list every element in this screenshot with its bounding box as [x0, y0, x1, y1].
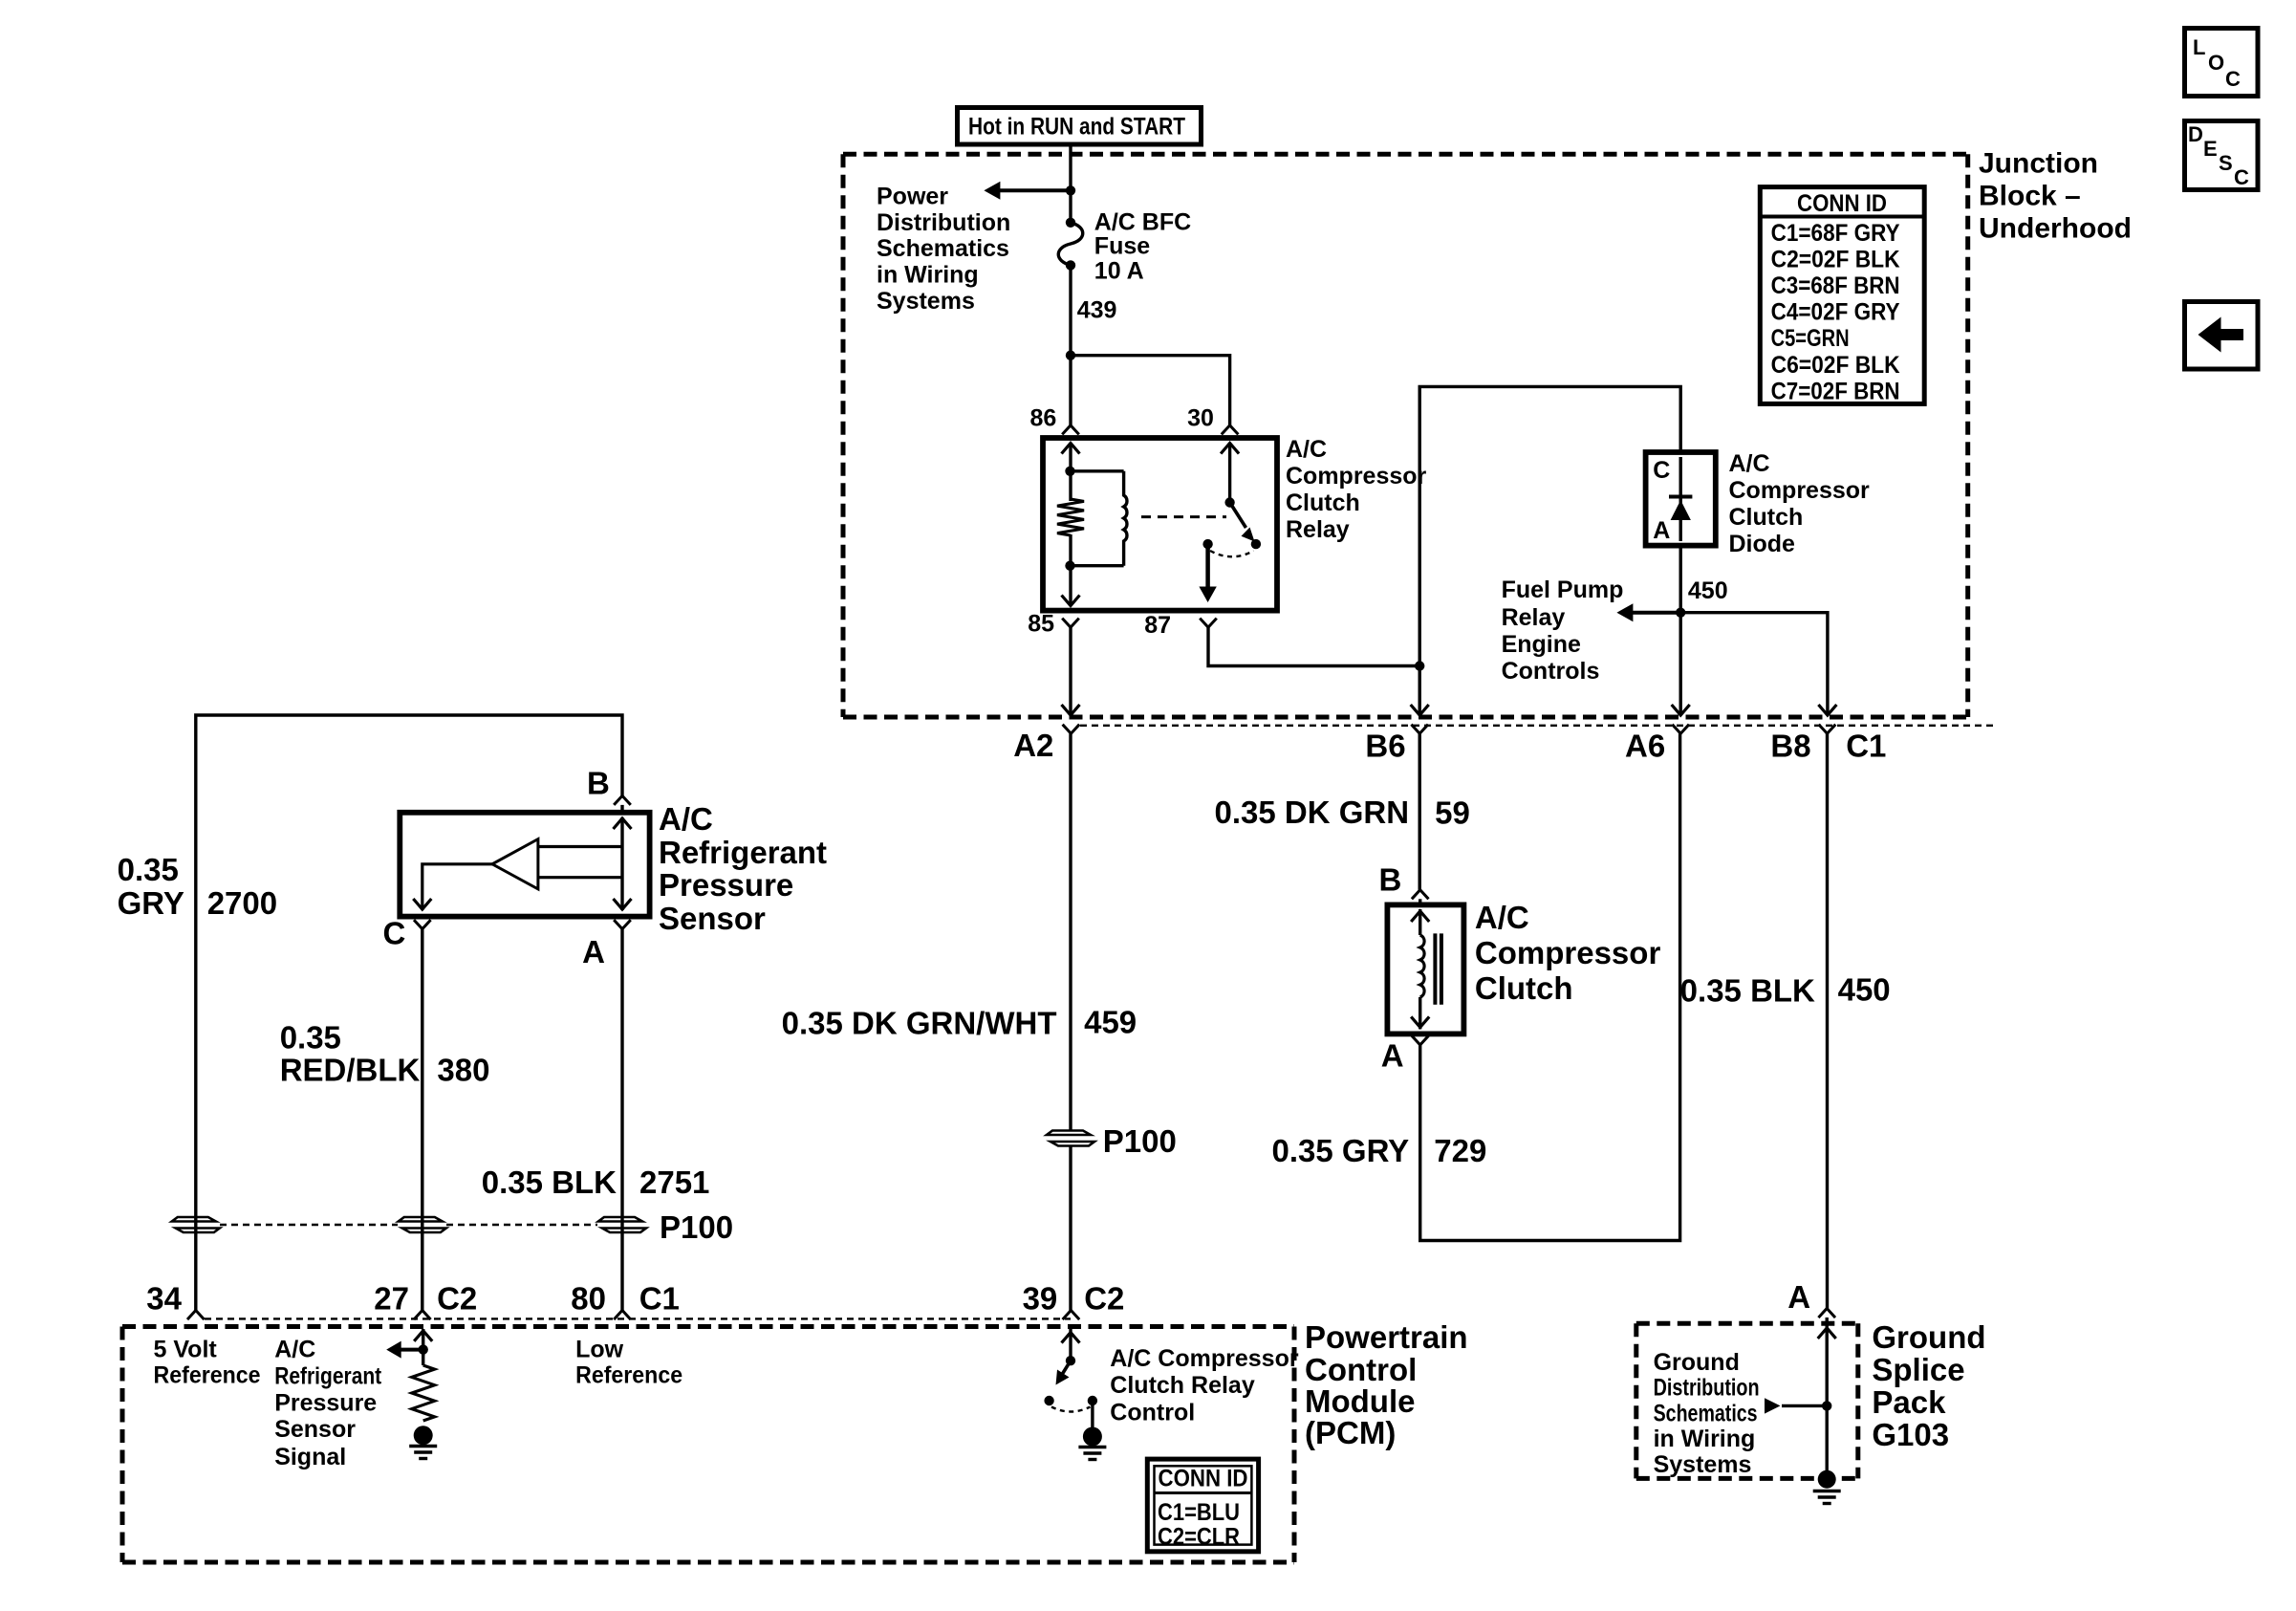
svg-text:Schematics: Schematics — [877, 235, 1009, 262]
wire: branch over to relay pin 30 — [1071, 356, 1230, 425]
svg-text:380: 380 — [437, 1053, 489, 1088]
wire 450: B8 down to G103 — [1826, 733, 1829, 1308]
connector P100 on wire 459 — [1047, 1131, 1091, 1136]
svg-text:30: 30 — [1187, 404, 1214, 431]
svg-text:C: C — [383, 915, 406, 950]
sensor transducer triangle — [492, 839, 538, 889]
PCM pin 39 internal: driver switch — [1062, 1329, 1080, 1361]
label: Fuel Pump Relay Engine Controls — [1502, 577, 1624, 685]
svg-text:Pressure: Pressure — [274, 1389, 377, 1416]
svg-text:B6: B6 — [1365, 729, 1405, 764]
node: junction dot to pin 30 branch — [1066, 351, 1075, 360]
wire: branch to Power Distribution Schematics — [1000, 188, 1071, 192]
svg-text:C7=02F BRN: C7=02F BRN — [1771, 378, 1900, 404]
svg-text:A/C Compressor: A/C Compressor — [1110, 1345, 1299, 1372]
connector P100 on wire 2751 — [598, 1217, 642, 1222]
terminal chevron sensor B — [614, 795, 631, 805]
terminal chevron PCM 27 — [414, 1311, 431, 1320]
svg-text:O: O — [2208, 51, 2224, 75]
svg-text:Junction: Junction — [1979, 148, 2098, 180]
wire 380: sensor C down to PCM pin 27 — [421, 929, 423, 1311]
terminal chevron pin 30 — [1222, 425, 1239, 435]
PCM interface thin dashed line — [205, 1317, 1071, 1319]
svg-text:Reference: Reference — [575, 1361, 682, 1388]
label: Power Distribution Schematics in Wiring Systems — [877, 183, 1010, 315]
wire: branch to ground distribution schematics — [1782, 1404, 1827, 1407]
svg-text:Reference: Reference — [154, 1361, 261, 1388]
svg-text:459: 459 — [1084, 1005, 1137, 1040]
node: blade tip contact dot — [1251, 539, 1261, 549]
PCM dashed box — [122, 1327, 1294, 1563]
svg-text:Compressor: Compressor — [1475, 935, 1661, 970]
diode D1 box: A/C Compressor Clutch Diode — [1646, 452, 1716, 546]
switch travel dashed arc (PCM) — [1051, 1407, 1091, 1412]
svg-text:Compressor: Compressor — [1729, 477, 1871, 504]
svg-text:27: 27 — [374, 1281, 409, 1317]
node: splice dot pin 27 — [419, 1344, 428, 1354]
diode symbol — [1669, 457, 1692, 541]
svg-text:59: 59 — [1435, 795, 1470, 830]
ground splice ball G103 — [1818, 1470, 1836, 1489]
svg-text:Signal: Signal — [274, 1444, 346, 1470]
svg-text:G103: G103 — [1872, 1417, 1949, 1452]
node: Hot in RUN and START box — [958, 108, 1202, 145]
svg-text:Distribution: Distribution — [877, 209, 1010, 236]
svg-text:0.35 DK GRN/WHT: 0.35 DK GRN/WHT — [782, 1006, 1057, 1041]
svg-text:Systems: Systems — [877, 288, 975, 315]
svg-text:P100: P100 — [1103, 1123, 1177, 1159]
label: Ground Distribution Schematics in Wiring Systems — [1654, 1349, 1760, 1478]
node: fuel pump splice dot — [1676, 608, 1685, 618]
svg-text:0.35: 0.35 — [118, 852, 179, 887]
label: 5 Volt Reference — [154, 1337, 261, 1389]
label: 0.35 GRY (left wire) — [118, 852, 184, 921]
terminal chevron B8/C1 — [1819, 725, 1836, 734]
svg-text:L: L — [2193, 35, 2205, 59]
svg-text:439: 439 — [1077, 296, 1117, 323]
svg-text:2700: 2700 — [207, 885, 277, 921]
label: A/C Compressor Clutch Relay Control — [1110, 1345, 1299, 1426]
wire: hot feed from Hot box to fuse — [1069, 144, 1072, 223]
arrow to Fuel Pump Relay Engine Controls (off-page) — [1616, 603, 1633, 621]
svg-text:Relay: Relay — [1502, 604, 1566, 631]
terminal chevron clutch A — [1412, 1035, 1429, 1045]
svg-text:Pressure: Pressure — [659, 867, 793, 903]
svg-text:A: A — [1381, 1038, 1404, 1074]
terminal chevron PCM pin 39 — [1063, 1311, 1080, 1320]
svg-text:Ground: Ground — [1654, 1349, 1740, 1376]
svg-text:729: 729 — [1434, 1133, 1486, 1168]
svg-text:C4=02F GRY: C4=02F GRY — [1771, 299, 1900, 326]
label: Low Reference — [575, 1337, 682, 1389]
clutch coil internal — [1411, 909, 1429, 1029]
connector interface dashed line (thin) — [1080, 725, 1993, 727]
wire: B6 drop to interface — [1411, 666, 1429, 716]
svg-text:80: 80 — [571, 1281, 606, 1317]
node: junction dot on B6 wire — [1415, 661, 1424, 670]
wire: pin 85 internal with down arrow — [1062, 566, 1080, 606]
arrow to Power Distribution (off-page) — [984, 182, 1000, 200]
svg-text:2751: 2751 — [639, 1165, 709, 1200]
back-arrow box — [2185, 302, 2259, 370]
node: open contact dot (PCM) — [1044, 1396, 1053, 1405]
node: ground contact dot (PCM) — [1088, 1396, 1097, 1405]
wire: pin 87 internal with solid down arrow — [1199, 544, 1216, 602]
svg-text:Ground: Ground — [1872, 1319, 1985, 1355]
svg-text:B: B — [1379, 861, 1402, 897]
svg-text:Fuse: Fuse — [1094, 232, 1150, 259]
wire 729: clutch A down, over, up to A6 — [1420, 733, 1680, 1240]
ground symbol pin 27 — [409, 1445, 437, 1448]
svg-text:Control: Control — [1110, 1400, 1195, 1426]
svg-text:A/C: A/C — [1475, 900, 1529, 935]
node: switch pivot dot — [1224, 497, 1234, 507]
svg-text:C1: C1 — [639, 1281, 680, 1317]
svg-text:A/C: A/C — [659, 801, 713, 837]
svg-text:CONN ID: CONN ID — [1159, 1465, 1248, 1491]
terminal chevron B6 — [1411, 725, 1428, 734]
ground symbol G103 — [1813, 1490, 1841, 1492]
svg-text:39: 39 — [1023, 1281, 1058, 1317]
junction block label — [1979, 148, 2132, 245]
svg-text:A: A — [1787, 1279, 1810, 1315]
svg-text:P100: P100 — [660, 1209, 733, 1245]
terminal chevron pin 86 — [1062, 425, 1079, 435]
label: A/C Refrigerant Pressure Sensor Signal — [274, 1337, 382, 1470]
svg-text:34: 34 — [146, 1281, 182, 1317]
CONN ID table (PCM) — [1147, 1459, 1258, 1552]
PCM name label — [1305, 1319, 1468, 1450]
svg-text:A: A — [1653, 517, 1670, 544]
svg-text:A/C: A/C — [1729, 450, 1770, 477]
wire: over to B8 drop — [1680, 613, 1828, 713]
terminal chevron A6 — [1672, 725, 1689, 734]
switch blade with arrowhead (PCM) — [1056, 1361, 1072, 1384]
junction block (underhood) dashed box — [843, 154, 1968, 717]
DESC reference box — [2185, 121, 2259, 190]
svg-text:Fuel Pump: Fuel Pump — [1502, 577, 1624, 603]
svg-text:C2=02F BLK: C2=02F BLK — [1771, 246, 1900, 272]
svg-text:0.35 GRY: 0.35 GRY — [1272, 1133, 1410, 1168]
terminal chevron sensor C — [414, 920, 431, 929]
ground symbol pin 39 — [1078, 1446, 1106, 1448]
node: switch pivot dot (PCM) — [1066, 1356, 1075, 1365]
wire: to ground ball (PCM) — [1091, 1401, 1094, 1428]
wire: A6 drop below splice — [1672, 613, 1690, 715]
ground ball pin 27 — [414, 1426, 433, 1445]
svg-text:C: C — [2225, 67, 2241, 91]
node: coil top dot — [1065, 467, 1074, 476]
svg-text:Hot in RUN and START: Hot in RUN and START — [968, 114, 1185, 141]
svg-text:0.35: 0.35 — [280, 1020, 341, 1056]
svg-text:Splice: Splice — [1872, 1352, 1964, 1387]
diode name label — [1729, 450, 1871, 557]
svg-text:A/C: A/C — [1286, 436, 1327, 463]
svg-text:0.35 BLK: 0.35 BLK — [482, 1165, 617, 1200]
svg-text:C2: C2 — [437, 1281, 477, 1317]
svg-text:Pack: Pack — [1872, 1384, 1946, 1420]
svg-text:Low: Low — [575, 1337, 624, 1363]
svg-text:E: E — [2203, 137, 2218, 161]
arrow left (5V ref) — [386, 1341, 401, 1359]
svg-text:Controls: Controls — [1502, 658, 1600, 685]
switch travel dashed arc — [1210, 551, 1254, 556]
wire 2751: sensor A down to PCM pin 80 — [620, 929, 623, 1311]
sensor box: A/C Refrigerant Pressure Sensor — [400, 813, 649, 917]
svg-text:C: C — [1653, 457, 1670, 484]
wire 459 lower segment — [1069, 1146, 1072, 1311]
P100 harness dashed link — [220, 1224, 597, 1226]
fuse F1: A/C BFC Fuse 10 A — [1058, 218, 1083, 271]
connector P100 on wire 2700 — [172, 1217, 216, 1222]
svg-text:Diode: Diode — [1729, 531, 1796, 557]
svg-text:Powertrain: Powertrain — [1305, 1319, 1468, 1355]
sensor name label — [659, 801, 827, 936]
svg-text:C2=CLR: C2=CLR — [1158, 1524, 1240, 1551]
svg-text:Refrigerant: Refrigerant — [659, 835, 827, 870]
svg-text:C: C — [2234, 165, 2249, 189]
wire 59: B6 down to clutch B — [1418, 733, 1420, 889]
svg-text:Clutch: Clutch — [1475, 970, 1573, 1006]
terminal chevron pin 85 — [1062, 619, 1079, 628]
svg-text:450: 450 — [1688, 577, 1728, 604]
node: G103 splice dot — [1822, 1401, 1831, 1410]
terminal chevron sensor A — [614, 920, 631, 929]
terminal chevron pin 87 — [1200, 619, 1217, 628]
wire into sensor box — [620, 805, 623, 813]
resistor (relay suppression) — [1057, 471, 1084, 566]
wire into clutch box — [1419, 899, 1421, 904]
svg-text:86: 86 — [1029, 405, 1056, 432]
wire: branch left (5V ref) — [401, 1348, 423, 1352]
svg-text:Clutch: Clutch — [1286, 490, 1360, 516]
svg-text:C1=BLU: C1=BLU — [1158, 1499, 1240, 1526]
svg-text:A/C: A/C — [274, 1337, 315, 1363]
wire: B6 riser up to diode loop — [1419, 386, 1680, 665]
svg-text:C2: C2 — [1084, 1281, 1124, 1317]
terminal chevron PCM 80 — [614, 1311, 631, 1320]
svg-text:10 A: 10 A — [1094, 258, 1144, 285]
svg-text:Systems: Systems — [1654, 1451, 1752, 1478]
svg-text:B: B — [587, 766, 610, 801]
svg-text:CONN ID: CONN ID — [1797, 190, 1887, 217]
svg-text:Engine: Engine — [1502, 631, 1581, 658]
CONN ID table (junction block) — [1760, 187, 1924, 405]
connector P100 on wire 380 — [399, 1217, 443, 1222]
ground ball pin 39 — [1083, 1427, 1102, 1447]
svg-text:S: S — [2219, 151, 2233, 175]
terminal chevron G103 A — [1818, 1309, 1835, 1318]
LOC reference box — [2185, 29, 2259, 97]
svg-text:GRY: GRY — [118, 885, 184, 921]
wire: branch to Fuel Pump Relay — [1631, 611, 1680, 615]
sensor internal: B feed with arrows — [538, 817, 632, 910]
svg-text:Clutch Relay: Clutch Relay — [1110, 1372, 1255, 1399]
svg-text:C5=GRN: C5=GRN — [1771, 325, 1850, 352]
svg-text:A: A — [582, 934, 605, 969]
svg-text:Distribution: Distribution — [1654, 1375, 1760, 1402]
wire: pin 87 down and over to B6 wire — [1208, 627, 1419, 665]
relay K1 box: A/C Compressor Clutch Relay — [1043, 438, 1277, 611]
svg-text:Power: Power — [877, 183, 948, 209]
svg-text:(PCM): (PCM) — [1305, 1415, 1396, 1450]
wire 459: A2 down to PCM pin 39 — [1069, 733, 1072, 1130]
terminal chevron clutch B — [1412, 890, 1429, 900]
svg-text:Block –: Block – — [1979, 181, 2081, 212]
svg-text:A2: A2 — [1013, 728, 1053, 763]
label: Ground Splice Pack G103 — [1872, 1319, 1985, 1452]
relay actuation dashed link — [1141, 515, 1226, 518]
svg-text:Compressor: Compressor — [1286, 463, 1427, 490]
ground distribution dashed box — [1636, 1323, 1858, 1478]
wire: diode anode down to junction — [1679, 546, 1681, 613]
relay coil (parallel winding) — [1071, 471, 1127, 566]
wire: pin 85 down to A2 interface — [1062, 627, 1080, 715]
terminal chevron A2 — [1063, 725, 1080, 734]
svg-text:0.35 BLK: 0.35 BLK — [1680, 972, 1815, 1008]
wire 439 vertical — [1069, 265, 1072, 425]
switch blade with arrowhead — [1230, 503, 1255, 542]
terminal chevron PCM 34 — [187, 1311, 205, 1320]
svg-text:C3=68F BRN: C3=68F BRN — [1771, 272, 1900, 299]
svg-text:C1=68F GRY: C1=68F GRY — [1771, 220, 1900, 247]
clutch box: A/C Compressor Clutch — [1387, 904, 1463, 1034]
label: 0.35 RED/BLK — [280, 1020, 421, 1088]
arrow (off-page, ground distribution) — [1765, 1398, 1781, 1413]
svg-text:D: D — [2188, 122, 2203, 146]
node: pin 87 contact dot — [1202, 539, 1212, 549]
wire: G103 internal with up arrow — [1818, 1317, 1836, 1405]
svg-text:85: 85 — [1028, 611, 1054, 638]
svg-text:87: 87 — [1144, 612, 1171, 639]
svg-text:C6=02F BLK: C6=02F BLK — [1771, 352, 1900, 379]
svg-text:RED/BLK: RED/BLK — [280, 1053, 421, 1088]
relay coil arm: pin 86 internal wire with up arrow — [1062, 443, 1080, 471]
relay name label — [1286, 436, 1427, 543]
clutch name label — [1475, 900, 1661, 1006]
wire to ground ball — [1825, 1405, 1828, 1471]
svg-text:A/C BFC: A/C BFC — [1094, 209, 1191, 236]
svg-text:in Wiring: in Wiring — [877, 262, 979, 289]
svg-text:0.35 DK GRN: 0.35 DK GRN — [1215, 795, 1410, 830]
svg-text:Control: Control — [1305, 1352, 1417, 1387]
resistor (PCM input) — [412, 1350, 435, 1421]
svg-text:A6: A6 — [1625, 729, 1665, 764]
svg-text:Sensor: Sensor — [659, 901, 766, 936]
svg-text:Refrigerant: Refrigerant — [274, 1362, 382, 1389]
svg-text:Clutch: Clutch — [1729, 504, 1804, 531]
svg-text:Underhood: Underhood — [1979, 213, 2132, 245]
PCM pin 27 internal: pull-up to 5V splice — [414, 1329, 432, 1356]
svg-text:5 Volt: 5 Volt — [154, 1337, 218, 1363]
svg-text:Sensor: Sensor — [274, 1416, 356, 1443]
switch: pin 30 internal wire with up arrow — [1221, 443, 1239, 503]
svg-text:C1: C1 — [1846, 729, 1886, 764]
node: coil bottom dot — [1065, 561, 1074, 571]
svg-text:Relay: Relay — [1286, 516, 1350, 543]
svg-text:in Wiring: in Wiring — [1654, 1426, 1756, 1452]
arrow into interface at B8 — [1818, 705, 1836, 715]
wire 2700: top run from 5V ref up and over to sensor B — [196, 715, 622, 1311]
clutch plates (two bars) — [1435, 933, 1441, 1004]
svg-text:Module: Module — [1305, 1383, 1415, 1419]
label: fuse name — [1094, 209, 1191, 285]
sensor internal: output to C with arrow — [413, 864, 492, 910]
svg-text:450: 450 — [1838, 972, 1891, 1008]
svg-text:Schematics: Schematics — [1654, 1400, 1758, 1426]
node: junction dot to Power Distribution — [1066, 185, 1075, 195]
svg-text:B8: B8 — [1770, 729, 1810, 764]
